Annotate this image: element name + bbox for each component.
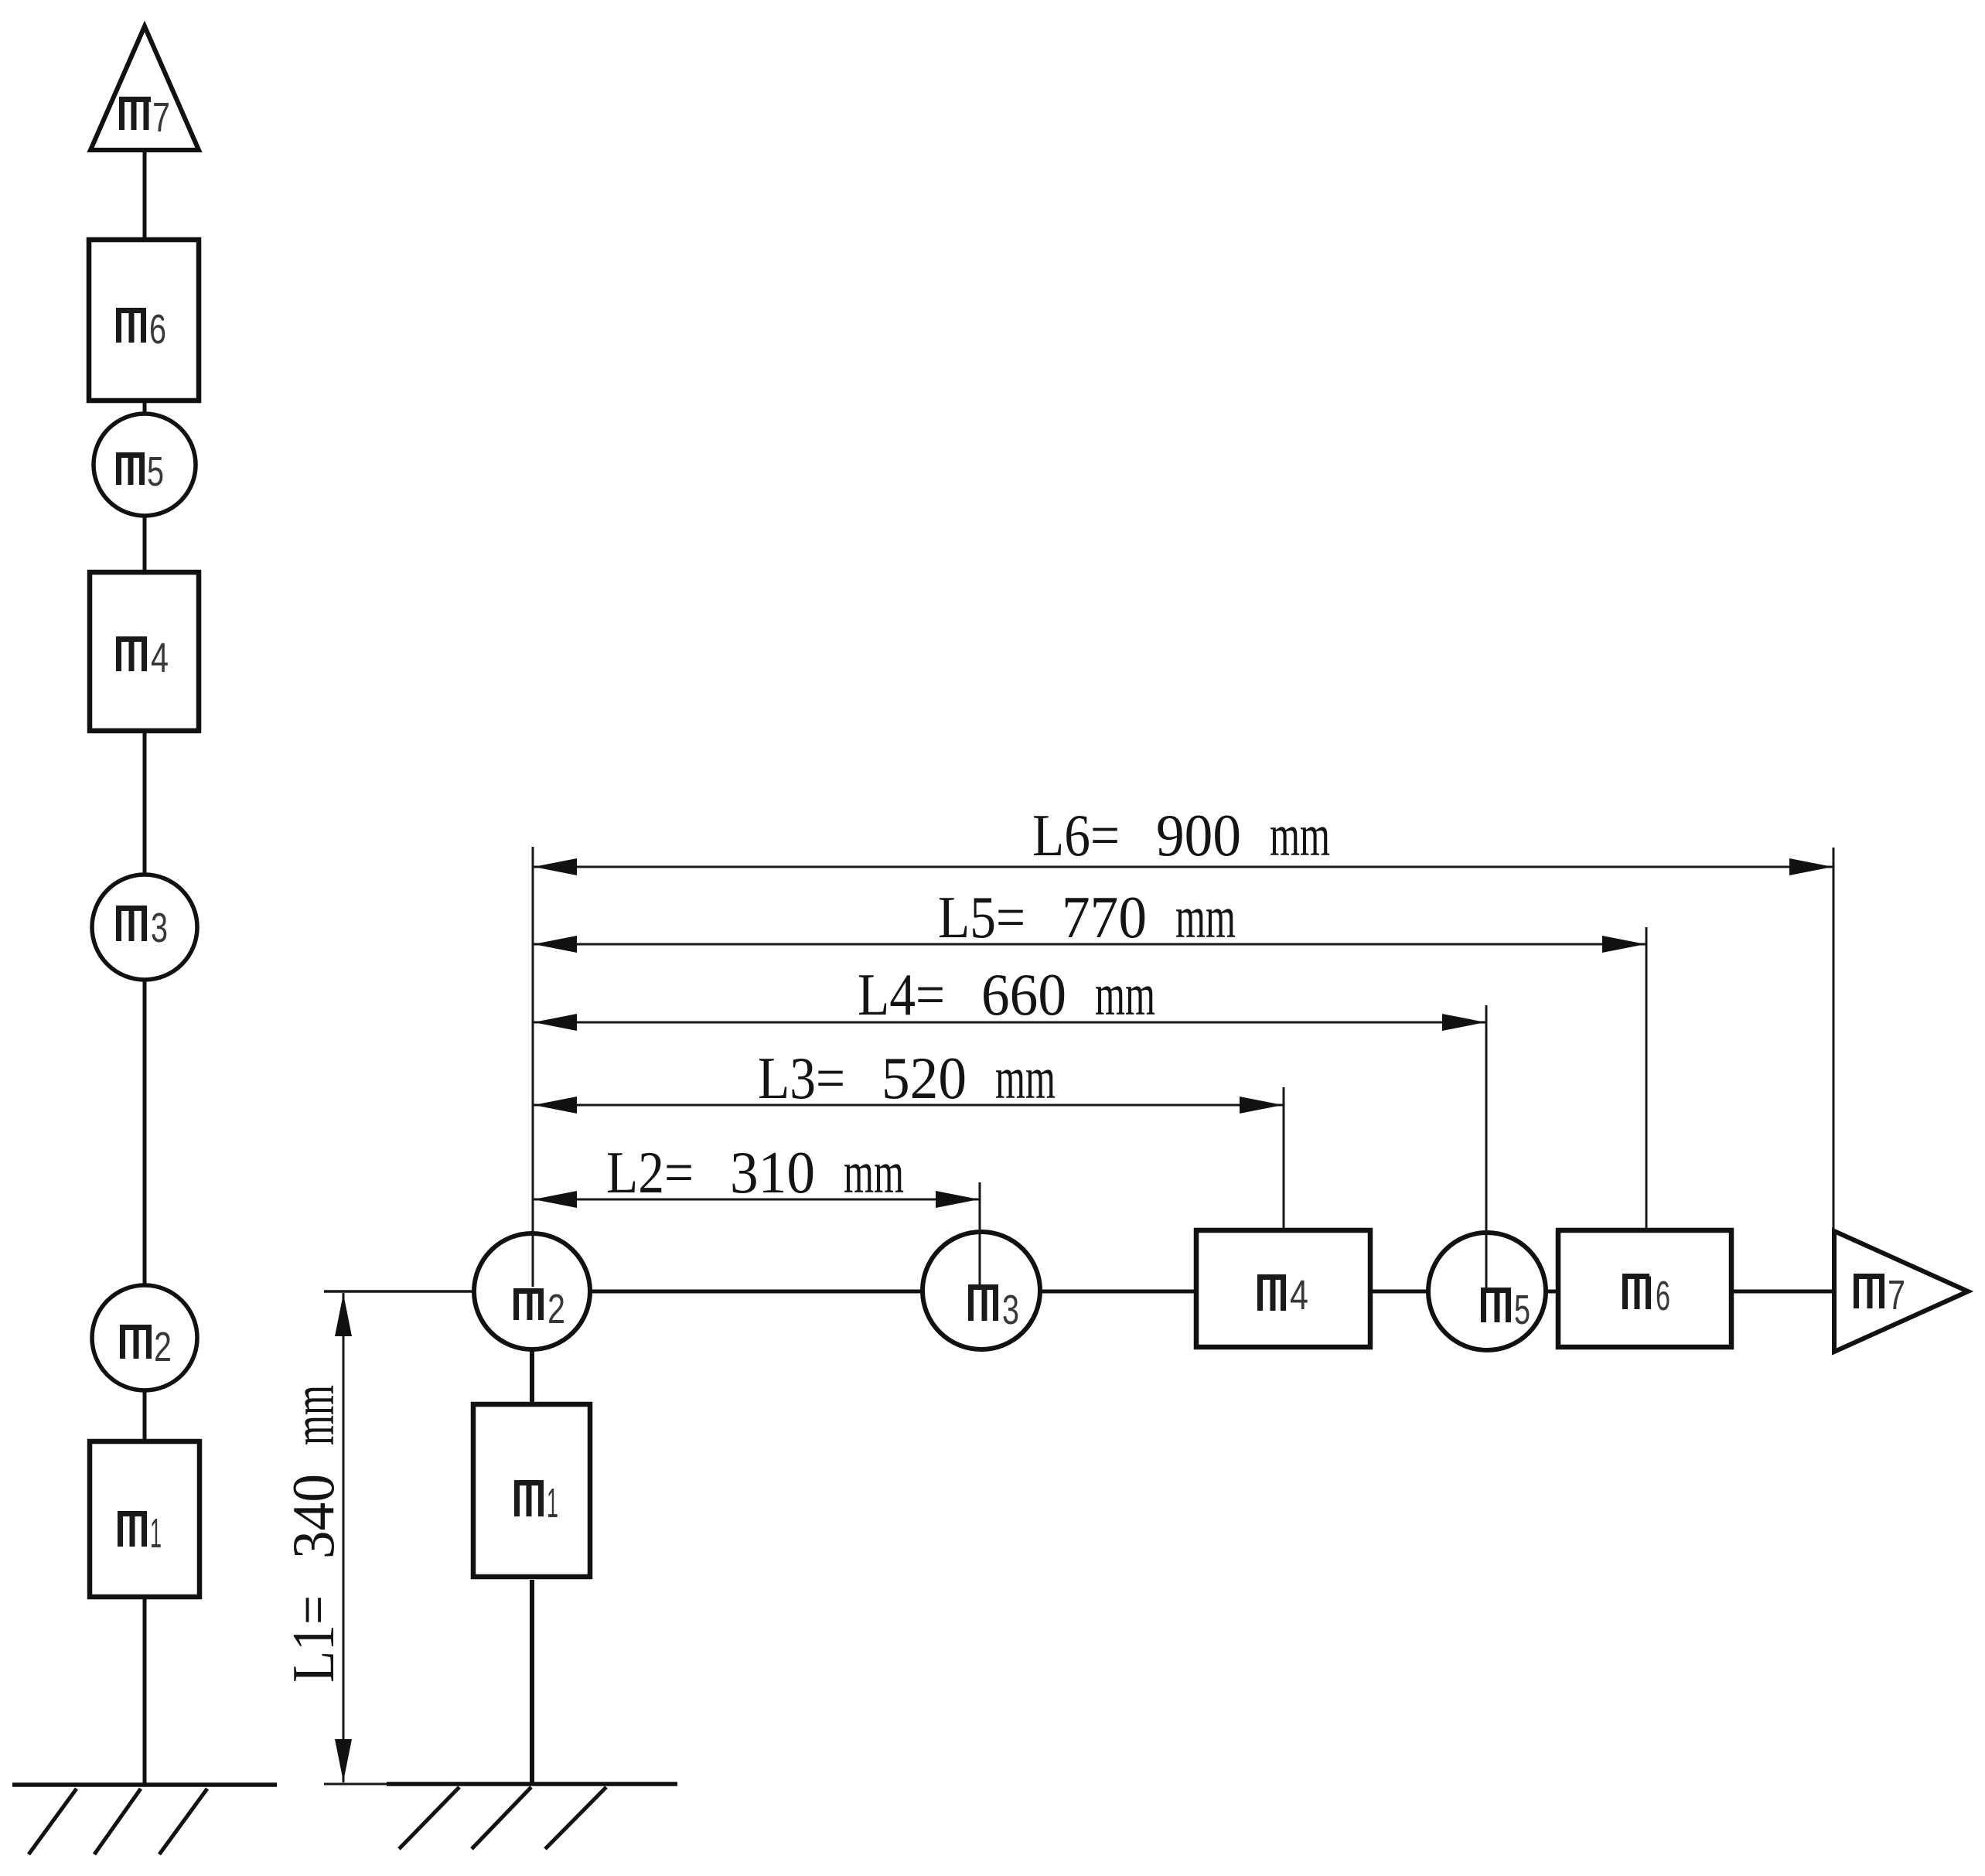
svg-text:7: 7 — [152, 94, 170, 141]
extension line above m7 — [1833, 848, 1835, 1231]
dimension L2 line — [533, 1191, 980, 1208]
dimension L6 text — [1032, 802, 1330, 868]
dimension L6 line — [533, 858, 1833, 875]
mass m6 rect (right structure) — [1558, 1230, 1731, 1347]
mass m4 rect (left column) — [90, 572, 199, 731]
mass m2 circle (left column) — [92, 1285, 197, 1390]
ground hatch 2 (right) — [472, 1787, 531, 1849]
ground line (right structure) — [324, 1783, 387, 1786]
svg-text:6: 6 — [1656, 1273, 1670, 1319]
svg-text:660: 660 — [981, 961, 1066, 1028]
wire — [143, 731, 147, 875]
wire — [143, 1390, 147, 1441]
extension line above m5 — [1485, 1005, 1488, 1288]
node line left of m2 (right structure) — [324, 1290, 476, 1293]
wire — [143, 401, 147, 414]
extension line above m4 — [1283, 1087, 1285, 1230]
mass m6 rect (left column) — [89, 240, 199, 401]
svg-text:mm: mm — [1175, 884, 1236, 950]
wire m1 to ground — [530, 1580, 534, 1784]
mass m1 rect (left column) — [90, 1441, 200, 1597]
extension line above m6 — [1646, 927, 1648, 1230]
svg-text:L1=340mm: L1=340mm — [280, 1385, 346, 1683]
svg-text:2: 2 — [547, 1286, 565, 1332]
svg-text:L6=: L6= — [1032, 802, 1120, 868]
mass m3 circle (right structure) — [923, 1232, 1040, 1349]
dimension L4 line — [533, 1014, 1486, 1031]
mass m3 circle (left column) — [92, 875, 197, 980]
dimension L1 line (vertical) — [335, 1293, 352, 1782]
mass m1 rect (right structure) — [473, 1404, 590, 1577]
svg-text:6: 6 — [149, 306, 166, 353]
svg-text:3: 3 — [1002, 1287, 1019, 1333]
mass m2 circle (right structure) — [474, 1233, 590, 1349]
mass m7 triangle (right structure) — [1834, 1231, 1968, 1352]
mass m5 circle (left column) — [94, 414, 196, 516]
ground hatch 2 (left) — [94, 1789, 141, 1854]
wire — [143, 1597, 147, 1785]
svg-text:mm: mm — [995, 1045, 1056, 1111]
wire m2 to m1 — [530, 1349, 534, 1406]
ground hatch 1 (right) — [399, 1787, 459, 1849]
dimension L3 line — [533, 1097, 1284, 1114]
svg-text:770: 770 — [1062, 884, 1147, 950]
wire — [143, 516, 147, 572]
svg-text:L2=: L2= — [606, 1139, 694, 1206]
dimension L5 line — [533, 936, 1646, 953]
dimension L1 text (rotated) — [280, 1385, 346, 1683]
svg-text:L3=: L3= — [758, 1045, 845, 1111]
svg-text:L5=: L5= — [938, 884, 1025, 950]
svg-text:4: 4 — [151, 635, 169, 681]
svg-text:5: 5 — [147, 449, 164, 495]
wire m6 to m7 — [1731, 1290, 1834, 1294]
svg-text:1: 1 — [547, 1480, 558, 1526]
dimension L2 text — [606, 1139, 904, 1206]
ground hatch 3 (left) — [159, 1789, 207, 1854]
svg-text:900: 900 — [1156, 802, 1241, 868]
mass m7 triangle (left column) — [90, 26, 199, 150]
svg-text:7: 7 — [1888, 1272, 1905, 1318]
mass m5 circle (right structure) — [1428, 1233, 1546, 1350]
svg-text:mm: mm — [844, 1139, 904, 1206]
dimension L4 text — [858, 961, 1155, 1028]
wire — [143, 980, 147, 1285]
ground line (left column) — [12, 1782, 277, 1787]
svg-text:1: 1 — [150, 1510, 162, 1557]
ground hatch 3 (right) — [545, 1787, 606, 1849]
ground hatch 1 (left) — [29, 1789, 77, 1854]
svg-text:mm: mm — [1270, 802, 1330, 868]
wire m5 to m6 — [1546, 1290, 1558, 1294]
extension line above m2 — [532, 847, 534, 1287]
wire — [143, 150, 147, 240]
svg-text:2: 2 — [154, 1324, 172, 1370]
svg-text:3: 3 — [151, 905, 168, 951]
svg-text:520: 520 — [882, 1045, 967, 1111]
dimension L3 text — [758, 1045, 1056, 1111]
extension line above m3 — [979, 1182, 981, 1287]
svg-text:4: 4 — [1290, 1272, 1308, 1318]
wire m3 to m4 — [1040, 1290, 1196, 1294]
svg-text:mm: mm — [1095, 961, 1155, 1028]
wire m2 to m3 — [590, 1290, 923, 1294]
svg-text:5: 5 — [1514, 1287, 1530, 1333]
dimension L5 text — [938, 884, 1236, 950]
mass m4 rect (right structure) — [1196, 1230, 1370, 1347]
svg-text:310: 310 — [730, 1139, 815, 1206]
svg-text:L4=: L4= — [858, 961, 945, 1028]
wire m4 to m5 — [1370, 1290, 1429, 1294]
